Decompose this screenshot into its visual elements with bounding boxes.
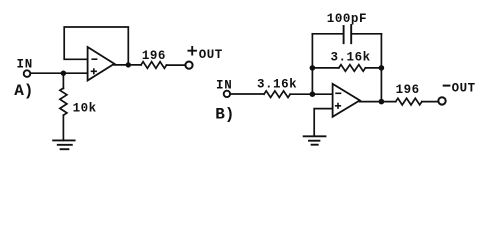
svg-text:3.16k: 3.16k [257,77,297,91]
op-amp U2 [333,84,360,117]
wire B: + input to ground [314,109,332,136]
terminal B output [438,97,445,104]
wire B: 3.16k to op-amp - input [290,93,332,95]
svg-text:IN: IN [216,78,233,92]
wire B: capacitor left lead [312,33,343,35]
terminal A output [185,62,192,69]
resistor R3 3.16k (input) [264,91,290,98]
wire B: left feedback vertical [311,34,313,94]
wire B: capacitor right lead [351,33,381,35]
wire B: input terminal to 3.16k [230,93,264,95]
wire A: junction down to 10k resistor [62,73,64,88]
svg-text:A): A) [14,82,33,100]
wire A: feedback loop (output to - input) [64,27,128,65]
terminal A input [24,70,31,77]
wire A: 196 to output terminal [167,64,186,66]
label minus sign (- OUT) [444,85,450,87]
label plus sign (+ OUT) [188,47,196,55]
wire A: op-amp output [114,64,141,66]
wire B: op-amp output [360,101,396,103]
resistor R2 10k [60,88,67,115]
wire B: feedback resistor to right vertical [365,67,381,69]
capacitor C1 100pF [344,25,352,43]
pin label plus (U2) [336,104,341,109]
ground (circuit B) [304,136,326,144]
svg-text:196: 196 [142,49,166,63]
svg-text:IN: IN [16,58,33,72]
svg-text:100pF: 100pF [327,12,367,26]
svg-text:OUT: OUT [199,48,223,62]
wire A: input terminal to op-amp + input [31,72,88,74]
resistor R5 196 (output) [396,98,422,105]
node B2: left feedback resistor junction [310,65,316,71]
svg-text:OUT: OUT [452,81,476,95]
op-amp U1 [88,47,115,81]
resistor R1 196 [141,62,167,69]
node A2: output junction with feedback [126,62,131,67]
terminal B input [224,91,230,97]
node A1: junction of input wire and 10k [61,71,66,76]
wire B: right feedback vertical [380,34,382,102]
resistor R4 3.16k (feedback) [339,65,366,72]
wire B: 196 to output terminal [422,101,438,103]
pin label minus (U2) [336,92,340,94]
svg-text:10k: 10k [73,101,97,115]
svg-text:196: 196 [396,83,420,97]
node B4: output junction with feedback [379,99,385,105]
pin label minus (U1) [92,58,96,60]
svg-text:B): B) [215,105,234,123]
pin label plus (U1) [92,69,97,74]
wire A: 10k to ground [62,115,64,140]
node B1: summing junction [310,91,316,97]
wire B: left junction to feedback resistor [312,67,338,69]
ground (circuit A) [53,140,74,149]
svg-text:3.16k: 3.16k [330,51,370,65]
node B3: right feedback resistor junction [379,65,385,71]
